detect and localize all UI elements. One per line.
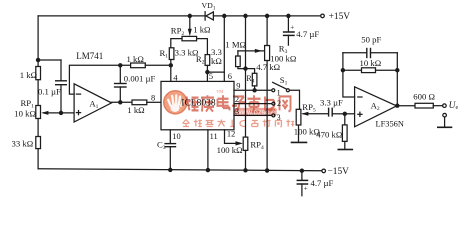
- node pin11 rail: [206, 169, 209, 172]
- svg-text:+: +: [290, 24, 294, 32]
- potentiometer RP2: [171, 16, 208, 55]
- op-amp U1 ICL8038 box: [161, 81, 234, 129]
- svg-text:100 kΩ: 100 kΩ: [270, 53, 296, 63]
- wire A2 minus to feedback: [343, 53, 355, 97]
- svg-text:470 kΩ: 470 kΩ: [316, 130, 342, 140]
- wire 33k down to bottom rail: [37, 149, 39, 169]
- wire junction to 470k: [344, 114, 346, 125]
- wire R2 node to pin6 line: [207, 71, 224, 73]
- node rail cap: [287, 14, 290, 17]
- potentiometer RP4 100k: [243, 137, 248, 150]
- node A1 plus junction: [59, 111, 62, 114]
- capacitor 4.7uF top: [284, 16, 294, 45]
- resistor R4 4.7k: [252, 73, 257, 86]
- svg-text:10 kΩ: 10 kΩ: [360, 58, 382, 68]
- svg-text:−15V: −15V: [328, 167, 350, 177]
- wire pin 2: [234, 103, 272, 105]
- wire R4 branch: [246, 69, 255, 74]
- svg-text:1 kΩ: 1 kΩ: [127, 105, 144, 115]
- watermark logo circle: [164, 91, 187, 114]
- node C3 rail: [169, 168, 172, 171]
- wire 1k to RP1: [37, 80, 39, 106]
- node cap rail: [300, 169, 303, 172]
- svg-text:C3: C3: [157, 139, 166, 151]
- capacitor C3: [165, 130, 175, 170]
- node S1 contact 2: [272, 102, 275, 105]
- wire pin 6 from +15V rail: [223, 16, 225, 82]
- svg-text:3.3 µF: 3.3 µF: [320, 97, 343, 107]
- wire A1 output: [112, 101, 133, 103]
- RP1 wiper arrowhead: [41, 111, 48, 115]
- wire bottom rail: [38, 169, 322, 171]
- wire pin 11 to rail: [207, 130, 209, 170]
- svg-text:R1: R1: [160, 48, 169, 60]
- wire RP5 bottom: [298, 125, 300, 142]
- wire pin 9: [234, 89, 272, 91]
- ground below 470k: [338, 149, 352, 151]
- wire pin 12 to RP4 wiper: [225, 130, 237, 144]
- wire R4 to pin9 wire: [254, 86, 256, 90]
- switch S1 arm: [273, 82, 287, 89]
- potentiometer RP1: [36, 106, 41, 119]
- RP5 wiper arrowhead: [301, 112, 308, 116]
- node S1 contact 3: [272, 114, 275, 117]
- svg-text:9: 9: [236, 81, 240, 90]
- svg-text:1 kΩ: 1 kΩ: [193, 24, 210, 34]
- resistor 1k left: [36, 67, 41, 80]
- potentiometer RP5 100k: [296, 109, 301, 125]
- wire to pin 8: [147, 101, 161, 103]
- svg-text:S1: S1: [280, 75, 288, 87]
- svg-text:33 kΩ: 33 kΩ: [12, 139, 34, 149]
- watermark big characters row: [186, 95, 291, 111]
- node ground terminal: [443, 113, 447, 117]
- node R2 bottom junction: [206, 71, 209, 74]
- svg-text:10 kΩ: 10 kΩ: [14, 108, 36, 118]
- ground below RP5: [292, 141, 307, 143]
- resistor 1k feedback: [131, 63, 146, 68]
- watermark hand: [167, 94, 185, 112]
- R3 wiper arrowhead: [255, 49, 262, 53]
- svg-text:600 Ω: 600 Ω: [413, 92, 435, 102]
- ground below Ue: [438, 117, 452, 127]
- capacitor 0.1uF: [38, 60, 66, 113]
- svg-text:R2: R2: [196, 54, 205, 65]
- node rail R3: [266, 14, 269, 17]
- watermark small characters row: [183, 120, 295, 128]
- resistor 33k: [36, 137, 41, 149]
- wire 1M top to R3 wiper line: [237, 51, 239, 56]
- svg-text:WWW.DZSC.COM: WWW.DZSC.COM: [236, 110, 285, 116]
- resistor R1 3.3k: [169, 48, 174, 60]
- resistor 600 ohm: [415, 103, 433, 108]
- wire feedback top left: [343, 52, 367, 54]
- WATERMARK: [164, 89, 295, 127]
- svg-text:4.7 kΩ: 4.7 kΩ: [256, 62, 280, 72]
- svg-text:LF356N: LF356N: [376, 120, 404, 129]
- switch S1 pole: [286, 89, 289, 92]
- wire A2 output: [397, 105, 415, 107]
- node R3 rail: [266, 169, 269, 172]
- capacitor 4.7uF bottom: [297, 171, 307, 196]
- op-amp A2: [355, 87, 397, 127]
- op-amp A1: [74, 84, 111, 122]
- wire to A2 plus: [345, 113, 355, 115]
- wire R3 wiper line: [238, 50, 264, 52]
- node R4 pin9 junction: [253, 89, 256, 92]
- wire RP5 wiper to 3.3uF: [303, 113, 328, 115]
- capacitor 50pF: [367, 49, 371, 58]
- node rail pin6: [223, 14, 226, 17]
- svg-text:TM: TM: [217, 89, 224, 94]
- wire 470k to ground: [344, 141, 346, 149]
- svg-text:8: 8: [151, 94, 155, 103]
- svg-text:11: 11: [210, 132, 218, 141]
- wire 1M bottom to +15 vert junction: [238, 67, 246, 69]
- wire 10k branch right: [376, 69, 398, 71]
- watermark dzsc band: [235, 108, 278, 116]
- capacitor 0.001uF: [115, 65, 126, 102]
- node pin4 feedback junction: [169, 64, 172, 67]
- svg-text:+: +: [304, 184, 308, 192]
- node feedback cap junction: [119, 64, 122, 67]
- RP4 wiper arrowhead: [236, 141, 244, 145]
- node fb right: [396, 69, 399, 72]
- node RP4 rail: [244, 169, 247, 172]
- wire R3 top to rail: [266, 16, 268, 46]
- svg-text:10: 10: [172, 132, 180, 141]
- node RP2 wiper rail junction: [188, 14, 191, 17]
- wire R3 bottom to -15 rail: [266, 61, 268, 171]
- svg-text:kΩ: kΩ: [211, 56, 222, 66]
- resistor 1M: [236, 56, 241, 67]
- resistor 10k: [362, 68, 376, 73]
- node S1 contact 1: [272, 89, 275, 92]
- resistor 1k output: [132, 100, 147, 105]
- svg-text:50 pF: 50 pF: [361, 35, 381, 45]
- svg-text:100 kΩ: 100 kΩ: [217, 145, 243, 155]
- wire A1 minus input to feedback: [69, 65, 130, 94]
- node -15V terminal: [322, 169, 326, 173]
- diode VD1: [205, 12, 213, 20]
- wire top rail right section: [213, 15, 320, 17]
- svg-text:+15V: +15V: [329, 12, 351, 22]
- wire feedback resistor to pin4 node: [145, 64, 171, 66]
- svg-text:4.7 µF: 4.7 µF: [311, 178, 334, 188]
- wire RP4 bottom to rail: [245, 150, 247, 170]
- svg-text:1 MΩ: 1 MΩ: [225, 40, 246, 50]
- svg-text:LM741: LM741: [76, 51, 103, 61]
- svg-text:RP4: RP4: [250, 139, 264, 151]
- svg-text:6: 6: [228, 72, 232, 81]
- wire pin 3: [234, 114, 272, 116]
- node R4 branch: [244, 67, 247, 70]
- resistor R2 3.3k: [205, 55, 210, 66]
- node A2 output junction: [396, 104, 399, 107]
- wire pole to RP5: [289, 90, 299, 109]
- node rail feed: [244, 14, 247, 17]
- svg-text:VD1: VD1: [202, 1, 216, 12]
- wire feedback right vertical: [396, 53, 398, 106]
- svg-text:3.3 kΩ: 3.3 kΩ: [175, 47, 199, 57]
- potentiometer R3 100k: [265, 46, 270, 61]
- wire R1 to pin 4: [170, 60, 172, 82]
- wire left column from rail to 1k: [37, 16, 39, 67]
- node junction left cap branch: [37, 58, 40, 61]
- node +15V terminal: [321, 14, 325, 18]
- svg-text:RP5: RP5: [302, 102, 316, 114]
- wire feedback top right: [371, 52, 398, 54]
- wire R2 to pin 5: [206, 65, 208, 81]
- svg-text:12: 12: [227, 129, 235, 138]
- wire top rail left section: [38, 15, 204, 17]
- wire to Ue terminal: [433, 105, 442, 107]
- node 470k junction: [343, 112, 346, 115]
- wire RP1 wiper to A1 plus input: [44, 112, 75, 114]
- node Ue terminal: [443, 104, 447, 108]
- svg-text:4.7 µF: 4.7 µF: [296, 29, 319, 39]
- svg-text:0.1 µF: 0.1 µF: [38, 87, 61, 97]
- svg-text:0.001 µF: 0.001 µF: [124, 74, 156, 84]
- resistor 470k: [342, 125, 347, 141]
- capacitor 3.3uF: [329, 108, 345, 116]
- svg-text:1 kΩ: 1 kΩ: [127, 54, 144, 64]
- wire +15V feed vertical to RP4: [245, 16, 247, 137]
- svg-text:RP2: RP2: [171, 26, 185, 38]
- node A1 output junction: [119, 101, 122, 104]
- svg-text:5: 5: [209, 72, 213, 81]
- wire 10k branch left: [343, 69, 362, 71]
- node fb left: [341, 69, 344, 72]
- wire RP1 to 33k: [37, 119, 39, 137]
- svg-text:e: e: [456, 105, 459, 111]
- svg-text:1 kΩ: 1 kΩ: [20, 70, 37, 80]
